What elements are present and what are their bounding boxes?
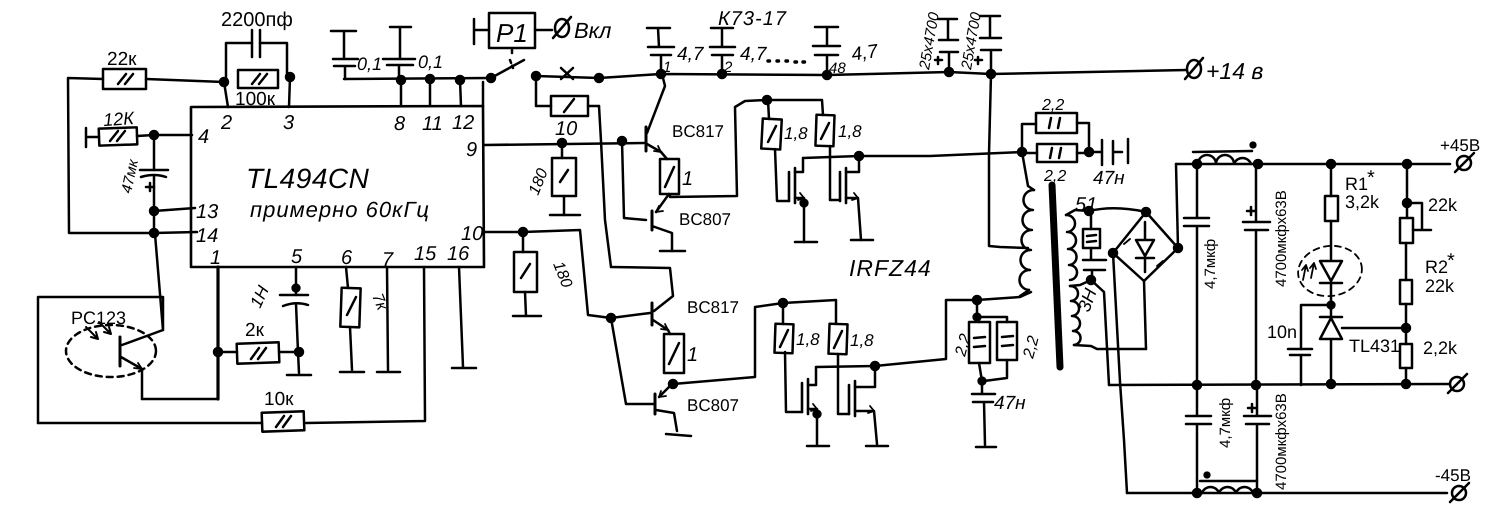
terminal Vkl — [553, 17, 611, 43]
node switch out — [532, 72, 540, 80]
wire pin15 down — [306, 267, 425, 423]
resistor 10 bypass — [536, 78, 599, 140]
svg-text:4,7: 4,7 — [850, 41, 880, 66]
resistor 100k — [235, 70, 278, 110]
wire pin8 stub — [400, 80, 403, 106]
wire pin14 — [154, 232, 197, 233]
wire center tap down to mid rail — [1091, 280, 1109, 385]
node 25x4700a — [945, 68, 953, 76]
node C — [595, 74, 603, 82]
capacitor 4.7mkf top — [1184, 164, 1219, 385]
svg-text:10: 10 — [555, 118, 577, 140]
svg-text:К73-17: К73-17 — [718, 8, 787, 30]
svg-text:6: 6 — [341, 247, 353, 269]
node 180a tap — [558, 139, 566, 147]
svg-text:8: 8 — [394, 113, 405, 135]
node ref divider — [1402, 324, 1410, 332]
resistor 1.8 d — [828, 324, 874, 355]
node driver2 gates — [779, 299, 787, 307]
node bridge right — [1174, 244, 1182, 252]
capacitor 4700mkf top — [1243, 164, 1290, 385]
node pin4 — [150, 131, 158, 139]
capacitor 47n upper — [1089, 139, 1128, 189]
capacitor 10n — [1267, 322, 1312, 385]
node pin13 — [150, 207, 158, 215]
node bridge top — [1142, 208, 1150, 216]
svg-text:2,2: 2,2 — [1043, 168, 1066, 185]
label K73-17 — [718, 8, 787, 30]
svg-text:4,7: 4,7 — [740, 44, 768, 65]
svg-text:примерно 60кГц: примерно 60кГц — [250, 197, 430, 222]
wire mid rail 0V — [1109, 384, 1450, 385]
node M4 drain — [871, 362, 879, 370]
svg-text:13: 13 — [196, 201, 218, 223]
wire branch to BC817b collector — [611, 267, 673, 311]
node 2k right — [295, 348, 303, 356]
svg-text:TL431: TL431 — [1349, 336, 1400, 356]
svg-text:Вкл: Вкл — [574, 18, 611, 43]
resistor 1ohm lower — [664, 334, 698, 373]
resistor 12k — [86, 108, 137, 147]
svg-text:12К: 12К — [102, 108, 135, 130]
resistor R1 3.2k — [1325, 164, 1380, 259]
node R1 rail — [1327, 160, 1335, 168]
wire +45 rail — [1176, 163, 1450, 166]
phototransistor PC123 — [120, 330, 163, 399]
resistor 51 secondary snubber — [1083, 211, 1100, 259]
svg-text:BC807: BC807 — [679, 210, 731, 229]
node 180b tap — [519, 228, 527, 236]
resistor 10k — [262, 389, 305, 432]
svg-text:22k: 22k — [1425, 276, 1455, 296]
node bases lower — [607, 314, 615, 322]
svg-text:4700мкфх63В: 4700мкфх63В — [1273, 393, 1290, 490]
svg-text:0,1: 0,1 — [418, 52, 443, 72]
node snubber lower — [973, 296, 981, 304]
svg-text:2200пф: 2200пф — [221, 9, 293, 31]
terminal +45V — [1440, 136, 1480, 172]
node driver1 gates — [763, 96, 771, 104]
optocoupler dashed outline — [66, 325, 156, 377]
wire pin9 — [484, 143, 644, 145]
wire 12k to pin4 — [137, 135, 192, 136]
wire bases node to BC817b base — [611, 313, 650, 318]
wire left feedback loop — [68, 78, 154, 233]
svg-text:4,7мкф: 4,7мкф — [1217, 398, 1234, 448]
terminal +14v — [1185, 58, 1263, 84]
svg-text:4,7: 4,7 — [677, 44, 705, 65]
wire pin12 stub — [460, 80, 461, 106]
svg-text:2к: 2к — [245, 320, 265, 341]
relay P1 box — [474, 13, 552, 48]
svg-text:2,2k: 2,2k — [1423, 338, 1458, 358]
svg-text:*: * — [1367, 167, 1375, 189]
wire secondary1 top — [1066, 210, 1089, 215]
svg-text:10к: 10к — [264, 389, 294, 410]
inductor L2 — [1200, 481, 1257, 493]
svg-text:14: 14 — [196, 225, 218, 247]
snubber upper node — [1018, 148, 1026, 156]
resistor 2.2k — [1400, 338, 1458, 384]
transistor Q4 BC807 lower — [655, 383, 739, 436]
node pin14 — [150, 229, 158, 237]
terminal 0V — [1448, 374, 1467, 393]
svg-text:R2: R2 — [1425, 257, 1448, 277]
label 3H — [1074, 285, 1101, 314]
wire BC817 emitter to R1ohm — [661, 152, 667, 159]
wire drains node lower — [816, 292, 1031, 367]
node M2 drain — [855, 152, 863, 160]
capacitor 25x4700 #1 — [916, 10, 958, 72]
wire pin1 vertical — [216, 267, 219, 399]
resistor 180 lower — [513, 232, 575, 316]
IC U1 TL494CN box — [191, 106, 484, 267]
wire gate c lead — [785, 352, 802, 412]
wire gate top bus upper — [767, 100, 823, 115]
svg-text:22к: 22к — [107, 49, 137, 70]
capacitor 1H at pin5 — [246, 267, 311, 375]
svg-text:2,2: 2,2 — [1041, 97, 1064, 114]
node -45 4.7 — [1193, 489, 1201, 497]
node mid 2.2k — [1402, 380, 1410, 388]
optocoupler light arrows — [86, 322, 111, 339]
mosfet M2 IRFZ44 — [840, 156, 873, 240]
node mid 4700 — [1252, 381, 1260, 389]
svg-text:15: 15 — [414, 243, 437, 265]
node 25x4700b — [987, 70, 995, 78]
phasing dot L2 — [1205, 473, 1210, 478]
resistor 1.8 b — [815, 115, 862, 147]
svg-text:4700мкфх63В: 4700мкфх63В — [1273, 190, 1290, 287]
optocoupler PC123 box — [38, 297, 163, 423]
jumper x mark — [561, 68, 573, 79]
svg-text:0,1: 0,1 — [357, 54, 382, 74]
node center tap — [1087, 276, 1095, 284]
svg-text:1,8: 1,8 — [850, 331, 874, 350]
svg-text:1,8: 1,8 — [838, 122, 862, 141]
wire primary bottom — [1020, 290, 1029, 296]
dots ellipsis — [768, 61, 805, 62]
svg-text:5: 5 — [291, 246, 303, 268]
wire down — [153, 211, 156, 233]
wire to BC807 base — [622, 141, 646, 220]
wire driver1 output — [670, 100, 767, 197]
wire center tap to sec2 — [1070, 280, 1091, 286]
wire emitter to pin1 line — [142, 398, 218, 401]
wire gate a lead — [775, 149, 789, 201]
svg-text:10: 10 — [461, 223, 483, 245]
phasing dot L1 — [1251, 143, 1256, 148]
svg-text:10n: 10n — [1267, 322, 1297, 342]
mosfet M1 IRFZ44 — [789, 158, 817, 242]
mosfet M3 IRFZ44 — [802, 367, 829, 446]
resistor 180 upper — [526, 143, 580, 215]
mosfet M4 IRFZ44 — [849, 366, 888, 446]
wire drains node upper — [803, 152, 1022, 158]
wire pin2 stub — [224, 82, 228, 107]
svg-text:4,7мкф: 4,7мкф — [1202, 239, 1219, 289]
wire 22k to node A — [146, 79, 224, 82]
snubber upper 2.2+2.2 — [1022, 97, 1089, 185]
svg-text:11: 11 — [422, 113, 443, 135]
svg-text:16: 16 — [447, 243, 470, 265]
IC U1 labels — [196, 112, 483, 271]
resistor R2 22k — [1400, 250, 1455, 344]
wire gate d lead — [838, 354, 849, 414]
svg-text:1: 1 — [682, 168, 693, 190]
terminal -45V — [1435, 466, 1471, 502]
svg-text:51: 51 — [1075, 194, 1097, 216]
resistor 1.8 a — [761, 100, 808, 150]
transformer T1 core — [1052, 185, 1060, 367]
svg-text:BC817: BC817 — [672, 122, 724, 141]
wire TL431 ref — [1342, 327, 1406, 330]
transistor Q1 BC817 — [646, 78, 724, 152]
resistor 2k — [218, 320, 299, 364]
resistor 22k top-left — [103, 49, 146, 89]
svg-text:BC817: BC817 — [687, 298, 739, 317]
wire pin3 stub — [289, 77, 290, 107]
node C2 — [718, 70, 726, 78]
node B pin3 junction — [286, 73, 294, 81]
svg-text:47н: 47н — [1093, 168, 1125, 189]
svg-text:+14 в: +14 в — [1206, 58, 1263, 84]
svg-text:9: 9 — [466, 139, 477, 161]
svg-text:IRFZ44: IRFZ44 — [849, 255, 932, 281]
svg-text:P1: P1 — [496, 18, 528, 48]
svg-text:1: 1 — [210, 247, 221, 269]
svg-text:2: 2 — [220, 112, 232, 134]
wire rail node C down to lower driver — [599, 106, 611, 267]
capacitor 47n lower — [972, 381, 1026, 447]
wire snubber node to primary top — [1022, 152, 1034, 190]
resistor 1ohm upper — [660, 159, 693, 194]
inductor L1 — [1193, 151, 1252, 164]
capacitor 47mk electrolytic — [118, 135, 168, 211]
wire driver2 output — [673, 303, 783, 384]
svg-text:BC807: BC807 — [687, 396, 739, 415]
node LED cathode — [1328, 302, 1335, 309]
capacitor 2200pf — [221, 9, 293, 81]
wire bridge minus down to -45 rail — [1113, 253, 1127, 493]
wire pin10 — [484, 230, 611, 318]
capacitor C 0.1 #2 — [383, 27, 443, 79]
svg-text:3: 3 — [283, 112, 294, 134]
wire gate b lead — [830, 146, 840, 200]
node 22k rail — [1403, 160, 1411, 168]
wire BC817b emitter to R1ohm-b — [668, 330, 670, 334]
capacitor C1 4.7 — [647, 28, 705, 76]
wire to BC807b base — [611, 318, 653, 404]
snubber lower 2.2+2.2 — [952, 300, 1042, 381]
wire 10k left to PC123 — [38, 422, 262, 425]
node C1 — [657, 70, 665, 78]
svg-text:-45В: -45В — [1435, 466, 1471, 485]
switch S1 dashed link — [510, 50, 513, 68]
label 51 — [1075, 194, 1097, 216]
wire pin7 ground — [377, 267, 400, 372]
wire bridge plus up — [1176, 164, 1178, 248]
transformer T1 secondary 2 — [1070, 286, 1081, 345]
node C48 — [823, 71, 831, 79]
svg-text:*: * — [1447, 250, 1455, 272]
svg-text:22k: 22k — [1428, 195, 1458, 215]
transistor Q3 BC817 lower — [652, 298, 739, 330]
svg-text:4: 4 — [198, 126, 209, 148]
wire secondary2 bottom — [1074, 345, 1146, 349]
transformer T1 secondary 1 — [1066, 215, 1077, 280]
wire rail pins 8 11 12 — [344, 78, 491, 79]
label IRFZ44 — [849, 255, 932, 281]
wire main +14 rail — [599, 70, 1186, 78]
wire bridge bottom to secondary2 — [1144, 281, 1146, 349]
wire pin13 — [154, 208, 195, 211]
capacitor C2 4.7 — [710, 28, 768, 76]
node bases tap upper — [618, 137, 626, 145]
wire -45 rail — [1127, 492, 1447, 495]
capacitor 25x4700 #2 — [958, 10, 1001, 74]
switch S1 arm — [491, 60, 524, 78]
node snubber upper right — [1085, 148, 1093, 156]
node pin1 2k tap — [214, 348, 222, 356]
wire secondary top to bridge — [1089, 208, 1146, 212]
node A pin2 junction — [220, 78, 228, 86]
IC U1 corner overshoot — [482, 82, 485, 106]
svg-text:12: 12 — [452, 112, 474, 134]
node snubber lower cap — [979, 378, 986, 385]
resistor 7k at pin6 — [340, 267, 391, 372]
wire node to PC123 collector — [155, 234, 163, 330]
wire pin11 stub — [429, 79, 432, 106]
transformer T1 primary — [1019, 190, 1034, 290]
wire rail to node C — [536, 76, 599, 78]
svg-text:1,8: 1,8 — [784, 124, 808, 143]
svg-text:1: 1 — [687, 344, 698, 366]
svg-text:1,8: 1,8 — [796, 330, 820, 349]
resistor 1.8 c — [774, 303, 820, 353]
node 4.7top rail — [1254, 160, 1262, 168]
wire gate top bus lower — [783, 300, 836, 324]
capacitor 4700mkf bottom — [1244, 385, 1290, 493]
svg-text:3,2k: 3,2k — [1345, 192, 1380, 212]
wire 10n tap — [1301, 305, 1331, 349]
wire pin16 ground — [452, 267, 476, 368]
capacitor C48 4.7 — [813, 27, 881, 77]
capacitor 3n secondary snubber — [1083, 260, 1106, 280]
bridge rectifier D1 — [1113, 212, 1178, 281]
capacitor C 0.1 #1 — [331, 31, 382, 79]
transistor Q2 BC807 — [652, 194, 731, 251]
trimmer 22k — [1400, 164, 1458, 280]
node secondary top — [1085, 207, 1093, 215]
node -45 4700 — [1253, 489, 1261, 497]
node mid TL431 — [1327, 380, 1335, 388]
svg-text:47н: 47н — [994, 393, 1026, 414]
node bridge left — [1109, 249, 1117, 257]
LED optocoupler diode — [1295, 242, 1365, 304]
node driver2 out — [669, 380, 677, 388]
svg-text:TL494CN: TL494CN — [246, 163, 370, 194]
svg-text:R1: R1 — [1345, 174, 1368, 194]
shunt regulator TL431 — [1320, 305, 1400, 385]
node mid 4.7 — [1193, 381, 1201, 389]
svg-text:+45В: +45В — [1440, 136, 1480, 155]
wire +14 to primary center tap — [989, 74, 1028, 248]
capacitor 4.7mkf bottom — [1186, 385, 1234, 493]
